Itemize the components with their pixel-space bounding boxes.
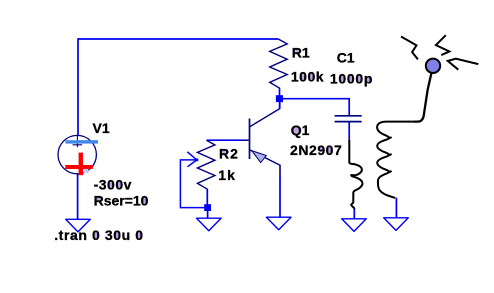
svg-text:R2: R2 — [219, 146, 239, 162]
svg-text:1k: 1k — [218, 167, 236, 183]
svg-text:100k: 100k — [291, 68, 324, 84]
svg-text:C1: C1 — [337, 50, 355, 66]
svg-text:R1: R1 — [292, 44, 310, 60]
svg-text:Rser=10: Rser=10 — [94, 193, 149, 209]
svg-text:.tran 0 30u 0: .tran 0 30u 0 — [54, 227, 144, 243]
svg-text:1000p: 1000p — [330, 70, 373, 86]
svg-text:V1: V1 — [93, 120, 110, 136]
svg-text:2N2907: 2N2907 — [290, 142, 342, 158]
svg-text:-300v: -300v — [94, 176, 132, 192]
svg-text:Q1: Q1 — [291, 122, 310, 138]
